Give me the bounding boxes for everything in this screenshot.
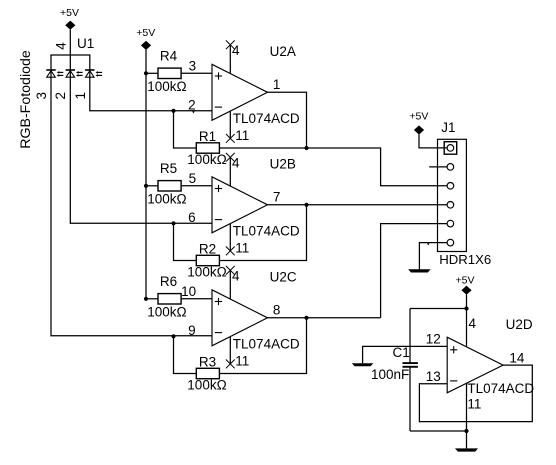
junction +5V rail / R6: [144, 297, 148, 301]
power pin stub 4 (U2B): [229, 157, 231, 186]
junction U2B output / R2: [304, 203, 308, 207]
wire +5V flag to U1 common (pin 4): [69, 30, 71, 55]
svg-text:+5V: +5V: [60, 7, 79, 19]
svg-text:100kΩ: 100kΩ: [147, 305, 186, 320]
wire U1 pin 1 to U2A inverting input node: [90, 55, 212, 111]
pin circle 1 (J1): [447, 145, 454, 152]
wire riser to J1 pin 5: [381, 224, 448, 318]
power pin stub 4 (U2A): [229, 45, 231, 74]
wire +5V rail to R5: [146, 185, 158, 187]
svg-text:100kΩ: 100kΩ: [147, 79, 186, 94]
photodiode D1 (U1): [46, 70, 63, 77]
svg-text:7: 7: [273, 189, 281, 204]
svg-text:3: 3: [189, 59, 197, 74]
svg-text:TL074ACD: TL074ACD: [233, 337, 300, 352]
svg-text:HDR1X6: HDR1X6: [439, 252, 491, 267]
plus sign (U2D): [450, 346, 457, 353]
wire U2B output to J1 pin 4: [268, 204, 448, 206]
power pin stub 11 (U2A): [229, 111, 231, 138]
svg-text:100kΩ: 100kΩ: [187, 265, 226, 280]
minus sign (U2A): [215, 106, 222, 108]
capacitor C1: [403, 363, 418, 367]
svg-text:12: 12: [426, 331, 441, 346]
op-amp U2D (TL074ACD): [447, 337, 503, 393]
power flag +5V (bias rail): [136, 27, 155, 50]
svg-text:4: 4: [54, 42, 69, 50]
svg-text:100nF: 100nF: [371, 367, 409, 382]
photodiode D2 (U1): [66, 70, 83, 77]
junction +5V rail / R5: [144, 184, 148, 188]
pin 1 square marker (J1): [444, 142, 457, 155]
svg-text:5: 5: [189, 171, 197, 186]
svg-text:R5: R5: [160, 161, 177, 176]
pin 2 stub (J1): [429, 166, 447, 168]
wire R5 to U2B non-inverting input: [181, 185, 212, 187]
svg-text:1: 1: [73, 92, 88, 100]
pin circle 2 (J1): [447, 164, 454, 171]
resistor R2: [196, 255, 219, 265]
wire R4 to U2A non-inverting input: [181, 72, 212, 74]
minus sign (U2B): [215, 219, 222, 221]
svg-text:3: 3: [34, 92, 49, 100]
svg-text:+5V: +5V: [136, 27, 155, 39]
svg-text:2: 2: [53, 92, 68, 100]
svg-text:R2: R2: [199, 242, 216, 257]
svg-text:14: 14: [509, 350, 525, 365]
wire +5V junction to C1: [410, 308, 467, 310]
wire U2D pin 13 feedback loop: [419, 365, 532, 422]
ground (U2D pin 12): [352, 363, 374, 366]
wire U1 pin 2 to U2B inverting input node: [70, 55, 212, 223]
photodiode D3 (U1): [85, 70, 102, 77]
svg-text:TL074ACD: TL074ACD: [233, 111, 300, 126]
wire U2A output to feedback node: [268, 92, 307, 148]
svg-text:R4: R4: [160, 48, 178, 63]
junction U2C output / R3: [304, 316, 308, 320]
capacitor C1 top lead: [409, 309, 411, 363]
resistor R1: [196, 143, 219, 153]
minus sign (U2D): [450, 380, 457, 382]
svg-text:11: 11: [235, 353, 249, 368]
wire +5V rail to R4: [146, 72, 158, 74]
resistor R6: [158, 294, 181, 304]
svg-text:R6: R6: [160, 274, 177, 289]
svg-text:100kΩ: 100kΩ: [187, 378, 226, 393]
resistor R5: [158, 181, 181, 191]
svg-text:R3: R3: [199, 355, 216, 370]
svg-text:11: 11: [467, 396, 481, 411]
wire U2D pin 12 to ground: [363, 346, 448, 363]
svg-text:13: 13: [426, 369, 441, 384]
wire C1 to ground rail: [410, 430, 467, 432]
capacitor C1 bottom lead: [409, 368, 411, 431]
wire R1 to output junction: [219, 147, 306, 149]
wire R3 to U2C output junction: [219, 318, 306, 374]
op-amp U2C (TL074ACD): [212, 290, 268, 346]
junction +5V / C1 rail: [464, 306, 468, 310]
wire R6 to U2C non-inverting input: [181, 298, 212, 300]
junction U2A output / R1: [304, 146, 308, 150]
svg-text:RGB-Fotodiode: RGB-Fotodiode: [18, 50, 34, 149]
svg-text:100kΩ: 100kΩ: [187, 152, 226, 167]
pin end tick (J1 pin 6): [427, 243, 430, 245]
resistor R3: [196, 368, 219, 378]
pin circle 5 (J1): [447, 220, 454, 227]
wire inverting node to R1: [174, 111, 197, 148]
junction inverting input node (U2A): [171, 109, 175, 113]
op-amp U2B (TL074ACD): [212, 177, 268, 233]
wire +5V bias rail: [145, 50, 147, 299]
junction ground rail (U2D): [464, 429, 468, 433]
junction +5V rail / R4: [144, 71, 148, 75]
no-connect X pin 11 (U2B): [226, 247, 235, 256]
svg-text:9: 9: [188, 323, 196, 338]
svg-text:TL074ACD: TL074ACD: [233, 224, 300, 239]
svg-text:C1: C1: [393, 345, 410, 360]
no-connect X pin 4 (U2C): [226, 266, 235, 275]
svg-text:U1: U1: [77, 36, 94, 51]
svg-text:+5V: +5V: [409, 111, 428, 123]
power pin stub 4 (U2C): [229, 270, 231, 299]
svg-text:U2D: U2D: [506, 317, 533, 332]
wire +5V to U2D pin 4: [466, 295, 468, 347]
wire U2C output to J1 pin 5 riser: [268, 317, 381, 319]
no-connect X pin 4 (U2B): [226, 153, 235, 162]
svg-text:6: 6: [188, 210, 196, 225]
no-connect X pin 11 (U2C): [226, 360, 235, 369]
power pin stub 11 (U2B): [229, 224, 231, 251]
no-connect X pin 11 (U2A): [226, 134, 235, 143]
power flag +5V (U2D supply): [456, 274, 475, 294]
svg-text:4: 4: [469, 316, 477, 331]
wire J1 pin 6 to ground: [419, 243, 447, 270]
wire U1 pin 3 to U2C inverting input node: [51, 55, 212, 336]
svg-text:100kΩ: 100kΩ: [147, 192, 186, 207]
connector J1 body: [438, 139, 467, 251]
svg-text:+5V: +5V: [456, 274, 475, 286]
pin circle 3 (J1): [447, 183, 454, 190]
plus sign (U2B): [215, 185, 222, 192]
pin end tick (U2A pin 2): [192, 111, 195, 113]
minus sign (U2C): [215, 332, 222, 334]
ground (J1 pin 6): [408, 269, 430, 272]
svg-text:J1: J1: [441, 120, 455, 135]
svg-text:U2C: U2C: [270, 270, 297, 285]
U1 common top bar: [50, 54, 90, 56]
plus sign (U2A): [215, 72, 222, 79]
op-amp U2A (TL074ACD): [212, 64, 268, 120]
svg-text:U2A: U2A: [270, 44, 296, 59]
ground (U2D pin 11): [466, 431, 468, 448]
wire inverting node to R2: [174, 223, 197, 260]
power flag +5V (J1 pin 1): [409, 111, 428, 135]
no-connect X pin 4 (U2A): [226, 40, 235, 49]
wire U2A output to J1 pin 3: [307, 148, 448, 186]
wire inverting node to R3: [174, 336, 197, 373]
junction inverting input node (U2C): [171, 334, 175, 338]
wire +5V rail to R6: [146, 298, 158, 300]
svg-text:2: 2: [188, 97, 196, 112]
power pin stub 11 (U2D): [466, 383, 468, 431]
plus sign (U2C): [215, 298, 222, 305]
wire R2 to U2B output junction: [219, 205, 306, 261]
power pin stub 11 (U2C): [229, 337, 231, 364]
resistor R4: [158, 68, 181, 78]
svg-text:8: 8: [273, 302, 281, 317]
svg-text:4: 4: [232, 268, 240, 283]
svg-text:TL074ACD: TL074ACD: [467, 381, 534, 396]
wire +5V to J1 pin 1: [419, 134, 447, 148]
svg-text:4: 4: [232, 43, 240, 58]
pin circle 4 (J1): [447, 202, 454, 209]
svg-text:1: 1: [273, 77, 281, 92]
svg-text:U2B: U2B: [270, 157, 296, 172]
svg-text:10: 10: [181, 284, 196, 299]
power flag +5V (U1 supply): [60, 7, 79, 30]
svg-text:4: 4: [232, 155, 240, 170]
junction inverting input node (U2B): [171, 221, 175, 225]
svg-text:R1: R1: [199, 129, 216, 144]
pin circle 6 (J1): [447, 239, 454, 246]
svg-text:11: 11: [235, 128, 249, 143]
svg-text:11: 11: [235, 240, 249, 255]
